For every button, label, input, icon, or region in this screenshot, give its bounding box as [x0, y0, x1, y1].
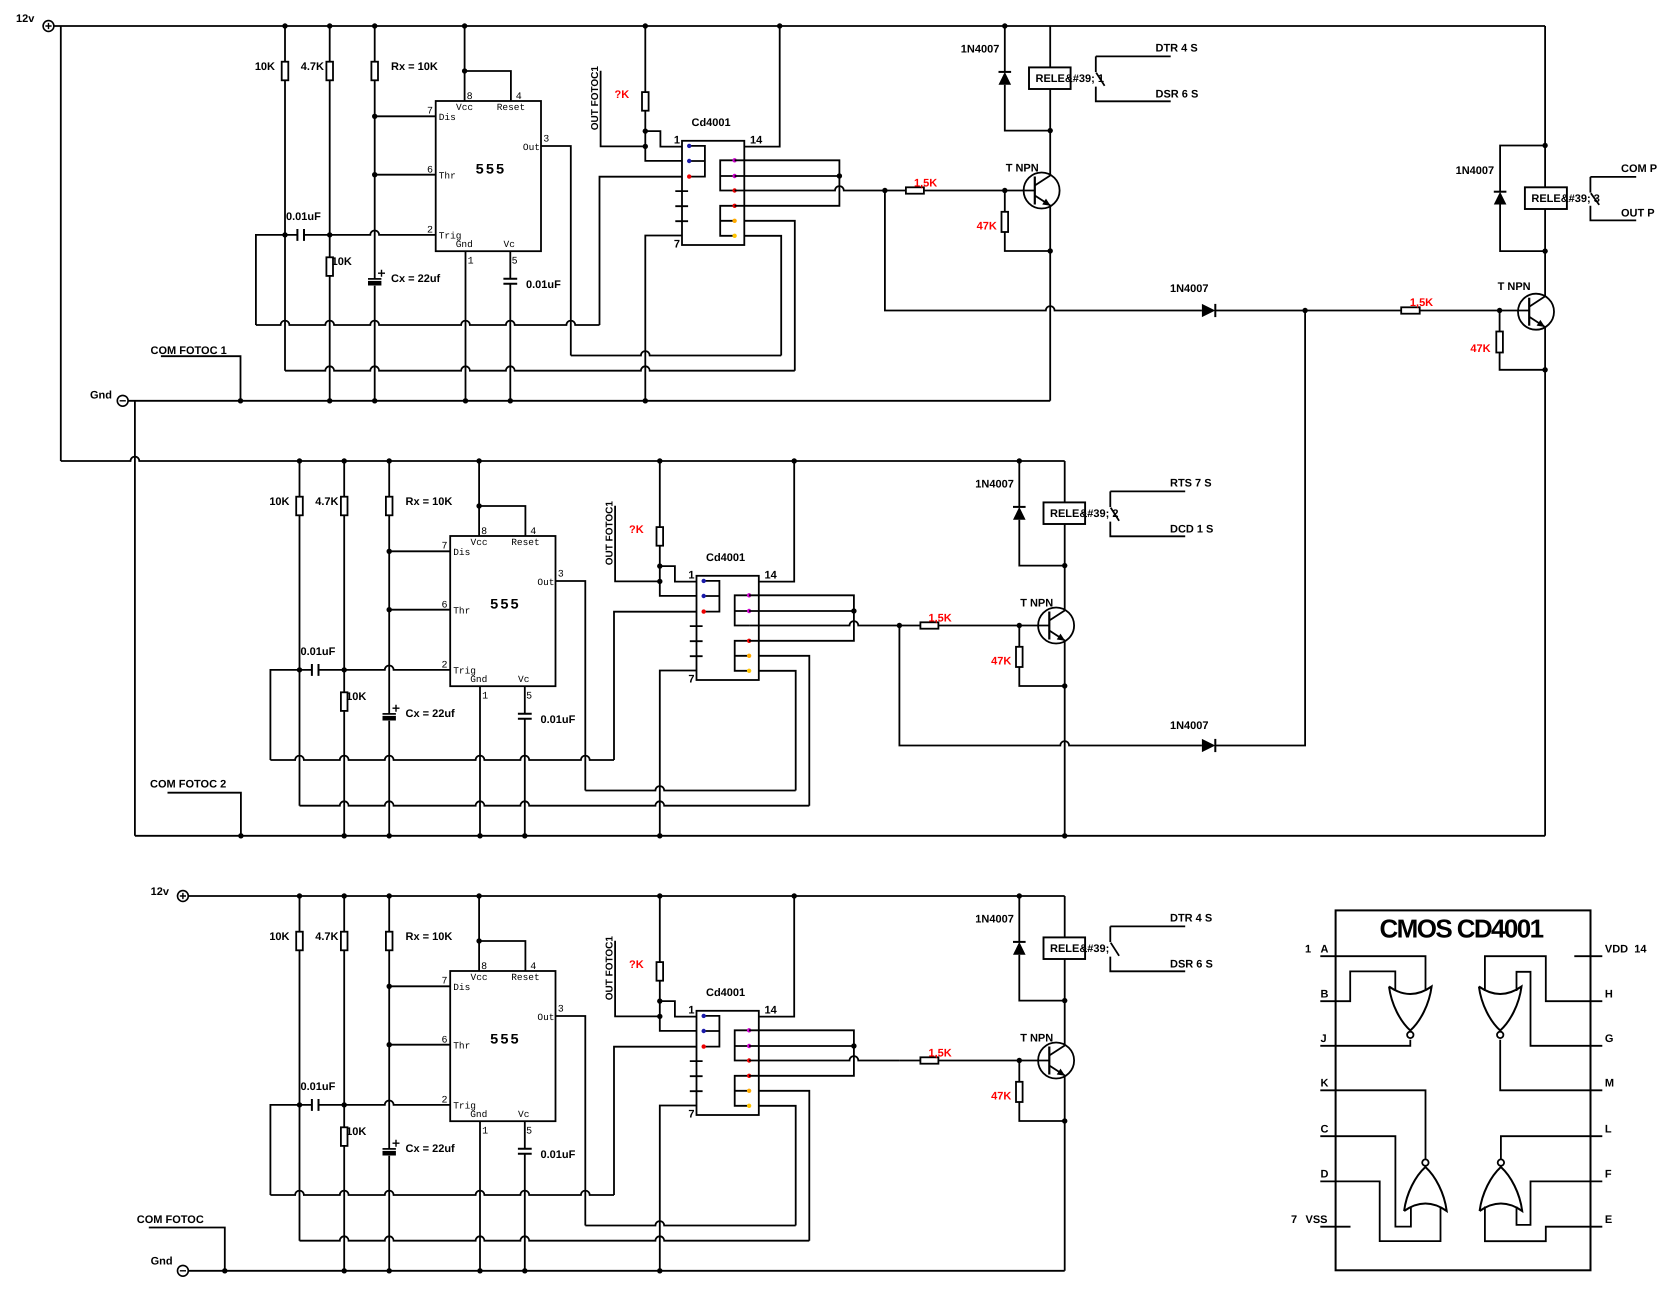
wire to CD4001 pin3 row: [614, 1047, 697, 1195]
relay K4: [1525, 187, 1567, 209]
junction: [643, 144, 648, 149]
junction: [657, 1268, 662, 1273]
svg-text:3: 3: [543, 135, 549, 146]
svg-text:Rx = 10K: Rx = 10K: [406, 931, 453, 943]
junction: [657, 1014, 662, 1019]
wire pin F: [1517, 1181, 1603, 1225]
wire emitter: [1049, 206, 1051, 401]
svg-text:Gnd: Gnd: [151, 1256, 173, 1268]
resistor R2f 1.5K: [920, 622, 938, 628]
wire diode branch: [1018, 896, 1020, 942]
wire base: [899, 625, 1049, 627]
svg-text:RELE&#39; 2: RELE&#39; 2: [1050, 508, 1118, 520]
CD4001 gate links: [720, 160, 734, 190]
CD4001 left pin stubs: [690, 626, 703, 656]
wire COM FOTOC 1 lead: [161, 356, 241, 401]
svg-text:4.7K: 4.7K: [301, 61, 324, 73]
wire Trig pin2: [270, 1101, 450, 1196]
junction: [476, 893, 481, 898]
svg-text:Cx = 22uf: Cx = 22uf: [391, 273, 441, 285]
junction: [387, 1268, 392, 1273]
pin dot: [747, 669, 751, 673]
wire 12v to 555 pin8: [478, 896, 480, 971]
resistor R1e ?K: [642, 92, 649, 111]
wire 12v rail block2: [61, 457, 1065, 461]
svg-text:3: 3: [558, 1005, 564, 1016]
resistor R3a 10K: [296, 932, 303, 951]
svg-text:1: 1: [482, 692, 488, 703]
svg-text:4.7K: 4.7K: [315, 931, 338, 943]
diode D1a 1N4007: [999, 71, 1012, 73]
diode D3a 1N4007: [1013, 941, 1026, 943]
svg-text:Cx = 22uf: Cx = 22uf: [406, 708, 456, 720]
diode D4 1N4007: [1494, 191, 1507, 193]
op-amp U3b Cd4001: [697, 1011, 759, 1115]
op-amp U7 CMOS CD4001 pinout: [1336, 910, 1591, 1270]
junction: [1542, 248, 1547, 253]
bus wire trig feedback: [284, 235, 286, 371]
svg-text:F: F: [1605, 1169, 1612, 1181]
CD4001 input tie: [704, 581, 720, 612]
svg-text:H: H: [1605, 988, 1613, 1000]
wire Thr pin6: [375, 174, 436, 176]
resistor R1c Rx: [371, 62, 378, 81]
resistor R3b 4.7K: [341, 932, 348, 951]
pin dot: [732, 174, 736, 178]
relay K2 contact: [1110, 491, 1185, 536]
resistor R2b 4.7K: [341, 497, 348, 516]
svg-text:0.01uF: 0.01uF: [301, 646, 336, 658]
pin dot: [687, 144, 691, 148]
junction: [387, 1042, 392, 1047]
svg-text:B: B: [1321, 988, 1329, 1000]
junction: [851, 1043, 856, 1048]
junction: [387, 549, 392, 554]
svg-text:?K: ?K: [629, 524, 644, 536]
svg-text:1: 1: [688, 1005, 694, 1017]
junction: [643, 23, 648, 28]
wire pin J: [1320, 1040, 1410, 1046]
junction: [477, 1268, 482, 1273]
wire: [735, 236, 782, 356]
svg-text:7: 7: [674, 239, 680, 251]
transistor Q3 T NPN: [1038, 1043, 1074, 1079]
junction: [297, 1102, 302, 1107]
wire diode branch: [1004, 26, 1006, 72]
svg-text:1,5K: 1,5K: [929, 613, 952, 625]
pin dot: [747, 1089, 751, 1093]
wire Dis pin7: [389, 985, 450, 987]
wire R3g 47K branch: [1019, 1061, 1064, 1122]
wire pin VSS: [1320, 1226, 1350, 1228]
wire ?K pull-up: [660, 461, 697, 596]
junction: [282, 23, 287, 28]
wire 12v to 555 pin8: [478, 461, 480, 536]
svg-text:10K: 10K: [269, 496, 289, 508]
bus wire: [300, 801, 810, 805]
junction: [522, 1268, 527, 1273]
wire pin VDD: [1574, 955, 1602, 957]
wire out to CD4001: [585, 786, 795, 790]
svg-text:555: 555: [475, 163, 506, 179]
svg-text:12v: 12v: [151, 886, 170, 898]
transistor Q4 T NPN: [1518, 294, 1554, 330]
junction: [643, 128, 648, 133]
CD4001 left pin stubs: [690, 1061, 703, 1091]
junction: [508, 398, 513, 403]
junction: [387, 458, 392, 463]
svg-text:5: 5: [526, 1127, 532, 1138]
capacitor Cx3 22uF: [383, 1148, 396, 1150]
op-amp U3 555 timer: [450, 971, 555, 1121]
junction: [657, 458, 662, 463]
junction: [477, 833, 482, 838]
svg-text:E: E: [1605, 1214, 1612, 1226]
wire CD4001 pin7 gnd: [660, 1106, 697, 1271]
svg-text:7: 7: [1291, 1214, 1297, 1226]
wire pin M: [1500, 1040, 1602, 1091]
relay K1 contact: [1096, 56, 1171, 101]
svg-text:7: 7: [688, 674, 694, 686]
svg-text:Out: Out: [523, 142, 540, 153]
pin dot: [747, 1074, 751, 1078]
node diode-or: [1302, 308, 1307, 313]
wire Trig pin2: [270, 666, 450, 760]
capacitor C1a 0.01uF: [297, 229, 304, 241]
wire out to CD4001: [571, 351, 781, 355]
pin dot: [732, 234, 736, 238]
wire 555 pin5: [524, 1121, 526, 1271]
svg-text:555: 555: [490, 598, 521, 614]
+ sign: [393, 705, 400, 712]
junction: [327, 398, 332, 403]
junction: [1062, 998, 1067, 1003]
pin dot: [732, 158, 736, 162]
svg-text:RELE&#39;: RELE&#39;: [1050, 943, 1109, 955]
svg-text:8: 8: [481, 962, 487, 973]
wire Thr pin6: [389, 1044, 450, 1046]
junction: [327, 232, 332, 237]
svg-text:?K: ?K: [629, 959, 644, 971]
junction: [1017, 893, 1022, 898]
junction: [657, 563, 662, 568]
svg-text:DSR 6 S: DSR 6 S: [1170, 958, 1213, 970]
wire right base: [1305, 310, 1529, 312]
svg-text:OUT FOTOC1: OUT FOTOC1: [590, 66, 601, 131]
svg-text:T NPN: T NPN: [1020, 598, 1053, 610]
svg-text:Dis: Dis: [453, 982, 470, 993]
wire 12v to CD4001 pin14: [744, 26, 779, 147]
svg-text:Cd4001: Cd4001: [706, 987, 745, 999]
wire to CD4001 pin1: [660, 1001, 697, 1017]
junction: [476, 458, 481, 463]
resistor R3c Rx: [386, 932, 393, 951]
wire 555 pin5: [509, 251, 511, 401]
relay K1: [1029, 67, 1071, 89]
junction: [522, 833, 527, 838]
wire COM FOTOC 2 lead: [168, 793, 241, 836]
wire 12v to R3a: [299, 896, 301, 1105]
pin dot: [747, 1028, 751, 1032]
pin dot: [702, 594, 706, 598]
junction: [657, 998, 662, 1003]
diode D1b 1N4007: [1202, 304, 1215, 317]
resistor R4a 1.5K: [1401, 307, 1420, 313]
svg-text:1: 1: [482, 1127, 488, 1138]
svg-text:1: 1: [468, 257, 474, 268]
svg-text:0.01uF: 0.01uF: [541, 714, 576, 726]
junction: [1542, 143, 1547, 148]
resistor R2g 47K: [1016, 647, 1023, 667]
svg-text:OUT FOTOC1: OUT FOTOC1: [604, 501, 615, 566]
svg-text:COM FOTOC 2: COM FOTOC 2: [150, 779, 226, 791]
svg-text:Gnd: Gnd: [470, 1109, 487, 1120]
wire emitter: [1064, 1076, 1066, 1271]
junction: [657, 579, 662, 584]
svg-text:10K: 10K: [255, 61, 275, 73]
wire right collector column: [1544, 26, 1546, 296]
resistor R2d 10K: [341, 692, 348, 711]
wire gnd rail block2: [135, 835, 1545, 837]
svg-text:4.7K: 4.7K: [315, 496, 338, 508]
pin dot: [747, 639, 751, 643]
junction: [476, 503, 481, 508]
junction: [222, 1268, 227, 1273]
svg-text:Out: Out: [537, 1012, 554, 1023]
bus wire: [270, 1191, 614, 1195]
wire 12v to Rx column: [388, 461, 390, 836]
wire: [749, 1106, 796, 1226]
svg-text:10K: 10K: [332, 256, 352, 268]
junction: [643, 398, 648, 403]
pin dot: [702, 1014, 706, 1018]
capacitor C3b 0.01uF: [518, 1149, 532, 1154]
NOR gate 3: [1404, 1167, 1447, 1211]
wire: [735, 221, 795, 371]
junction: [897, 623, 902, 628]
resistor R3g 47K: [1016, 1082, 1023, 1102]
svg-text:0.01uF: 0.01uF: [541, 1149, 576, 1161]
junction: [462, 23, 467, 28]
svg-text:Vc: Vc: [518, 674, 530, 685]
wire 12v to 555 pin4: [479, 506, 525, 536]
junction: [297, 458, 302, 463]
wire gnd rail block3: [188, 1270, 1064, 1272]
capacitor Cx2 22uF: [383, 713, 396, 715]
terminal Gnd -: [117, 395, 128, 406]
+ sign: [378, 270, 385, 277]
svg-text:Gnd: Gnd: [456, 239, 473, 250]
svg-text:7: 7: [688, 1109, 694, 1121]
svg-text:Dis: Dis: [453, 547, 470, 558]
svg-text:Cx = 22uf: Cx = 22uf: [406, 1143, 456, 1155]
wire 12v to R2b: [343, 461, 345, 836]
svg-text:Vcc: Vcc: [456, 102, 473, 113]
diode D2b 1N4007: [1202, 739, 1215, 752]
svg-text:Cd4001: Cd4001: [692, 117, 731, 129]
svg-text:?K: ?K: [615, 89, 630, 101]
svg-text:Vc: Vc: [518, 1109, 530, 1120]
svg-text:1N4007: 1N4007: [975, 913, 1014, 925]
wire 12v to R1b: [329, 26, 331, 401]
junction: [792, 458, 797, 463]
bus wire: [285, 366, 795, 370]
bus wire trig feedback: [299, 670, 301, 806]
junction: [342, 1102, 347, 1107]
CD4001 input tie: [689, 146, 705, 177]
junction: [1002, 188, 1007, 193]
svg-text:L: L: [1605, 1123, 1612, 1135]
svg-text:Vc: Vc: [504, 239, 516, 250]
wire block2 output tail: [899, 311, 1305, 746]
svg-text:COM P: COM P: [1621, 163, 1657, 175]
svg-text:Reset: Reset: [497, 102, 526, 113]
wire 12v to R1a: [284, 26, 286, 235]
wire 12v to 555 pin4: [479, 941, 525, 971]
svg-text:1N4007: 1N4007: [1170, 720, 1209, 732]
wire pin G: [1517, 972, 1603, 1046]
junction: [657, 833, 662, 838]
wire block1 output tail: [885, 191, 1305, 311]
wire Trig pin2: [256, 231, 436, 326]
junction: [387, 893, 392, 898]
junction: [372, 172, 377, 177]
pin dot: [687, 159, 691, 163]
wire ?K pull-up: [660, 896, 697, 1031]
wire 555 pin1 to gnd: [479, 686, 481, 836]
wire pin K: [1320, 1090, 1425, 1159]
wire 12v to relay: [1064, 461, 1066, 502]
wire CD4001 pin7 gnd: [660, 671, 697, 836]
svg-text:555: 555: [490, 1033, 521, 1049]
svg-text:47K: 47K: [1470, 343, 1490, 355]
junction: [882, 188, 887, 193]
svg-text:DTR 4 S: DTR 4 S: [1156, 43, 1198, 55]
junction: [1062, 1118, 1067, 1123]
svg-text:10K: 10K: [346, 691, 366, 703]
junction: [657, 893, 662, 898]
svg-text:1N4007: 1N4007: [1456, 165, 1495, 177]
svg-text:OUT FOTOC1: OUT FOTOC1: [604, 936, 615, 1001]
wire to CD4001 pin3 row: [614, 612, 697, 760]
junction: [1062, 833, 1067, 838]
svg-text:Reset: Reset: [511, 972, 540, 983]
wire pin B: [1320, 971, 1395, 1001]
svg-text:0.01uF: 0.01uF: [301, 1081, 336, 1093]
pin dot: [732, 188, 736, 192]
junction: [327, 23, 332, 28]
svg-text:Dis: Dis: [439, 112, 456, 123]
junction: [1002, 23, 1007, 28]
junction: [387, 607, 392, 612]
wire 555 pin1 to gnd: [465, 251, 467, 401]
resistor R3f 1.5K: [920, 1057, 938, 1063]
svg-text:VDD 14: VDD 14: [1605, 943, 1647, 955]
svg-text:Thr: Thr: [453, 1040, 470, 1051]
op-amp U2 555 timer: [450, 536, 555, 686]
resistor R3d 10K: [341, 1127, 348, 1146]
transistor Q1 T NPN: [1024, 173, 1060, 209]
junction: [462, 68, 467, 73]
bus wire: [256, 321, 600, 325]
svg-text:J: J: [1321, 1033, 1327, 1045]
svg-text:1,5K: 1,5K: [929, 1048, 952, 1060]
pin dot: [747, 609, 751, 613]
wire relay to collector: [1064, 959, 1066, 1045]
node OUT FOTOC bracket: [615, 506, 660, 582]
svg-text:10K: 10K: [346, 1126, 366, 1138]
bus wire trig feedback: [299, 1105, 301, 1241]
wire Thr pin6: [389, 609, 450, 611]
wire: [749, 671, 796, 791]
relay K3: [1044, 937, 1086, 959]
svg-text:5: 5: [526, 692, 532, 703]
capacitor C2a 0.01uF: [312, 664, 319, 676]
capacitor Cx1 22uF: [368, 278, 381, 280]
node OUT FOTOC bracket: [615, 941, 660, 1017]
wire left edge 12v feed: [60, 26, 62, 461]
wire 555 Out pin3: [556, 581, 586, 791]
svg-text:1,5K: 1,5K: [914, 178, 937, 190]
wire gnd rail block1: [128, 400, 1050, 402]
junction: [777, 23, 782, 28]
wire relay to collector: [1064, 524, 1066, 610]
wire 12v to relay: [1049, 26, 1051, 67]
wire 12v to R2a: [299, 461, 301, 670]
op-amp U1 555 timer: [436, 101, 541, 251]
op-amp U1b Cd4001: [682, 141, 744, 245]
CD4001 gate links: [735, 1030, 749, 1060]
junction: [282, 232, 287, 237]
svg-text:8: 8: [481, 527, 487, 538]
svg-text:14: 14: [765, 570, 778, 582]
wire Dis pin7: [389, 550, 450, 552]
junction: [792, 893, 797, 898]
wire gnd link to block2: [134, 401, 136, 836]
wire to CD4001 pin1: [660, 566, 697, 582]
svg-text:DTR 4 S: DTR 4 S: [1170, 913, 1212, 925]
NOR gate 1: [1389, 987, 1432, 1031]
wire to CD4001 pin3 row: [600, 177, 683, 325]
svg-text:G: G: [1605, 1033, 1614, 1045]
NOR gate 2: [1479, 987, 1522, 1031]
wire gate outputs tie: [749, 595, 854, 641]
svg-text:1,5K: 1,5K: [1410, 297, 1433, 309]
wire pin E: [1485, 1207, 1602, 1242]
pin dot: [732, 219, 736, 223]
svg-text:RELE&#39; 1: RELE&#39; 1: [1036, 73, 1104, 85]
wire 555 pin1 to gnd: [479, 1121, 481, 1271]
wire 12v to relay: [1064, 896, 1066, 937]
svg-text:4: 4: [530, 962, 536, 973]
junction: [1017, 458, 1022, 463]
svg-text:K: K: [1321, 1078, 1329, 1090]
pin dot: [747, 1058, 751, 1062]
svg-text:COM FOTOC 1: COM FOTOC 1: [151, 345, 227, 357]
svg-text:DSR 6 S: DSR 6 S: [1156, 88, 1199, 100]
junction: [1048, 128, 1053, 133]
svg-text:T NPN: T NPN: [1498, 281, 1531, 293]
+ sign: [393, 1140, 400, 1147]
svg-text:3: 3: [558, 570, 564, 581]
svg-text:1: 1: [688, 570, 694, 582]
junction: [1017, 1058, 1022, 1063]
svg-text:0.01uF: 0.01uF: [526, 279, 561, 291]
wire base: [885, 190, 1035, 192]
svg-text:Gnd: Gnd: [470, 674, 487, 685]
CD4001 input tie: [704, 1016, 720, 1047]
svg-text:4: 4: [530, 527, 536, 538]
